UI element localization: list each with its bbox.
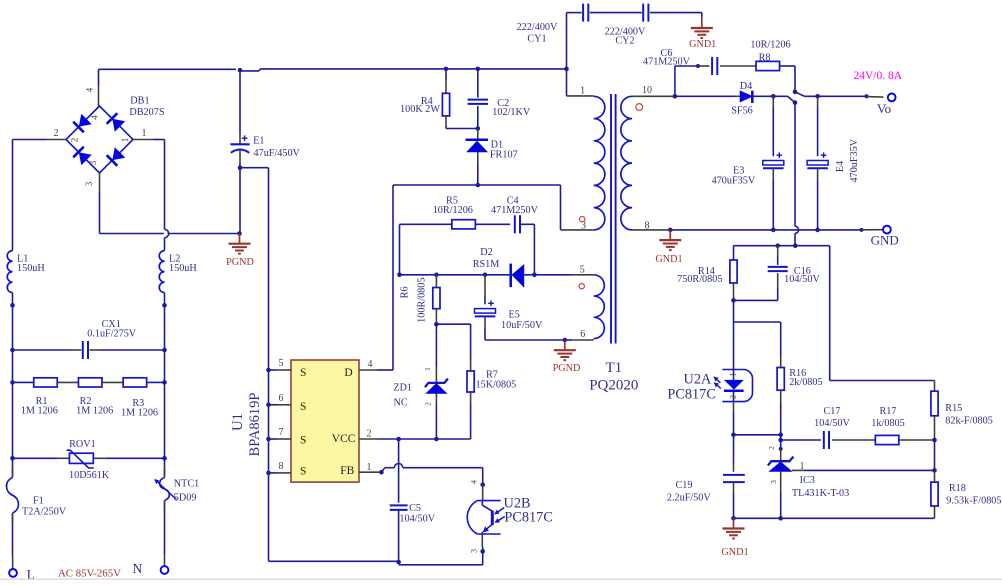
svg-text:S: S (300, 435, 306, 447)
svg-text:5: 5 (279, 358, 284, 369)
svg-text:E1: E1 (253, 136, 264, 147)
svg-text:10R/1206: 10R/1206 (433, 205, 473, 216)
svg-text:2: 2 (70, 138, 80, 143)
svg-text:2: 2 (729, 395, 738, 399)
svg-text:2k/0805: 2k/0805 (789, 377, 822, 388)
svg-text:PC817C: PC817C (667, 387, 715, 403)
svg-text:ROV1: ROV1 (69, 439, 96, 450)
svg-text:BPA8619P: BPA8619P (247, 393, 263, 457)
svg-text:8: 8 (279, 461, 284, 472)
svg-text:TL431K-T-03: TL431K-T-03 (792, 488, 849, 499)
svg-text:15K/0805: 15K/0805 (476, 380, 517, 391)
svg-text:5: 5 (580, 265, 585, 276)
svg-text:GND: GND (871, 232, 899, 247)
svg-text:1M 1206: 1M 1206 (76, 406, 113, 417)
svg-text:2: 2 (424, 402, 433, 406)
svg-text:82k-F/0805: 82k-F/0805 (945, 416, 993, 427)
svg-text:IC3: IC3 (800, 475, 815, 486)
svg-text:9.53k-F/0805: 9.53k-F/0805 (946, 496, 1001, 507)
svg-text:5D09: 5D09 (174, 493, 197, 504)
svg-text:CY2: CY2 (615, 35, 634, 46)
svg-text:1: 1 (142, 128, 147, 139)
svg-text:2: 2 (54, 128, 59, 139)
svg-text:DB207S: DB207S (129, 107, 164, 118)
svg-text:R15: R15 (945, 403, 962, 414)
svg-text:104/50V: 104/50V (399, 514, 435, 525)
svg-text:GND1: GND1 (689, 39, 716, 50)
svg-text:104/50V: 104/50V (784, 274, 820, 285)
svg-text:D2: D2 (480, 247, 492, 258)
svg-text:1M 1206: 1M 1206 (121, 408, 158, 419)
svg-text:CY1: CY1 (527, 34, 546, 45)
svg-text:10R/1206: 10R/1206 (750, 40, 790, 51)
svg-text:3: 3 (84, 181, 94, 186)
svg-text:3: 3 (470, 549, 479, 553)
svg-text:222/400V: 222/400V (517, 22, 558, 33)
svg-text:7: 7 (279, 427, 284, 438)
svg-text:471M250V: 471M250V (491, 205, 539, 216)
svg-text:470uF35V: 470uF35V (712, 176, 756, 187)
svg-text:R6: R6 (400, 286, 411, 298)
svg-text:NC: NC (394, 398, 408, 409)
svg-text:750R/0805: 750R/0805 (677, 274, 722, 285)
svg-text:E5: E5 (509, 310, 520, 321)
svg-text:1: 1 (580, 86, 585, 97)
svg-text:PC817C: PC817C (504, 509, 552, 525)
svg-text:FR107: FR107 (490, 150, 518, 161)
svg-text:10uF/50V: 10uF/50V (501, 320, 543, 331)
svg-text:U2A: U2A (684, 372, 712, 388)
svg-text:47uF/450V: 47uF/450V (254, 148, 301, 159)
svg-text:1: 1 (800, 461, 805, 472)
svg-text:GND1: GND1 (655, 254, 682, 265)
svg-text:DB1: DB1 (130, 96, 149, 107)
svg-text:RS1M: RS1M (473, 259, 500, 270)
svg-text:N: N (133, 561, 143, 576)
svg-text:4: 4 (470, 480, 479, 484)
svg-text:Vo: Vo (877, 101, 891, 116)
svg-text:100K 2W: 100K 2W (400, 104, 440, 115)
svg-text:2: 2 (367, 429, 372, 440)
svg-text:VCC: VCC (332, 433, 356, 445)
svg-text:1: 1 (729, 373, 738, 377)
svg-text:S: S (300, 367, 306, 379)
svg-text:3: 3 (88, 160, 98, 165)
svg-text:S: S (300, 466, 306, 478)
svg-text:470uF35V: 470uF35V (849, 138, 860, 182)
svg-text:6: 6 (279, 393, 284, 404)
svg-text:471M250V: 471M250V (643, 56, 691, 67)
svg-text:C17: C17 (824, 406, 841, 417)
svg-text:0.1uF/275V: 0.1uF/275V (87, 329, 137, 340)
svg-text:E4: E4 (835, 161, 846, 172)
svg-text:6: 6 (580, 329, 585, 340)
svg-text:SF56: SF56 (731, 105, 753, 116)
svg-text:R18: R18 (949, 483, 966, 494)
svg-text:8: 8 (645, 220, 650, 231)
svg-text:D4: D4 (740, 81, 752, 92)
svg-text:F1: F1 (33, 496, 44, 507)
svg-text:R8: R8 (759, 53, 771, 64)
svg-text:C5: C5 (409, 503, 421, 514)
svg-text:D: D (344, 367, 352, 379)
svg-text:PGND: PGND (553, 363, 581, 374)
svg-text:GND1: GND1 (721, 547, 748, 558)
svg-text:3: 3 (769, 480, 778, 484)
svg-text:S: S (300, 401, 306, 413)
svg-text:PQ2020: PQ2020 (589, 377, 638, 393)
svg-text:T2A/250V: T2A/250V (22, 507, 67, 518)
svg-text:10: 10 (642, 85, 652, 96)
svg-text:100R/0805: 100R/0805 (417, 278, 428, 323)
svg-text:FB: FB (340, 465, 354, 477)
svg-text:AC 85V-265V: AC 85V-265V (58, 568, 121, 580)
svg-text:PGND: PGND (226, 257, 254, 268)
svg-text:ZD1: ZD1 (393, 382, 412, 393)
svg-text:1: 1 (367, 462, 372, 473)
svg-text:C19: C19 (676, 480, 693, 491)
svg-text:10D561K: 10D561K (69, 470, 110, 481)
svg-text:104/50V: 104/50V (814, 418, 850, 429)
svg-text:1k/0805: 1k/0805 (871, 418, 904, 429)
svg-text:R17: R17 (880, 406, 897, 417)
svg-text:150uH: 150uH (169, 263, 197, 274)
svg-text:2.2uF/50V: 2.2uF/50V (667, 493, 712, 504)
svg-text:U1: U1 (230, 413, 246, 431)
svg-text:NTC1: NTC1 (174, 479, 199, 490)
svg-text:1M 1206: 1M 1206 (21, 406, 58, 417)
svg-text:1: 1 (120, 138, 130, 143)
svg-text:4: 4 (90, 115, 100, 120)
svg-text:2: 2 (767, 446, 776, 450)
svg-text:1: 1 (423, 367, 432, 371)
svg-text:24V/0. 8A: 24V/0. 8A (854, 70, 903, 82)
svg-text:T1: T1 (605, 360, 622, 376)
svg-text:4: 4 (85, 87, 95, 92)
svg-text:102/1KV: 102/1KV (492, 107, 531, 118)
svg-text:4: 4 (368, 359, 373, 370)
svg-text:150uH: 150uH (17, 263, 45, 274)
